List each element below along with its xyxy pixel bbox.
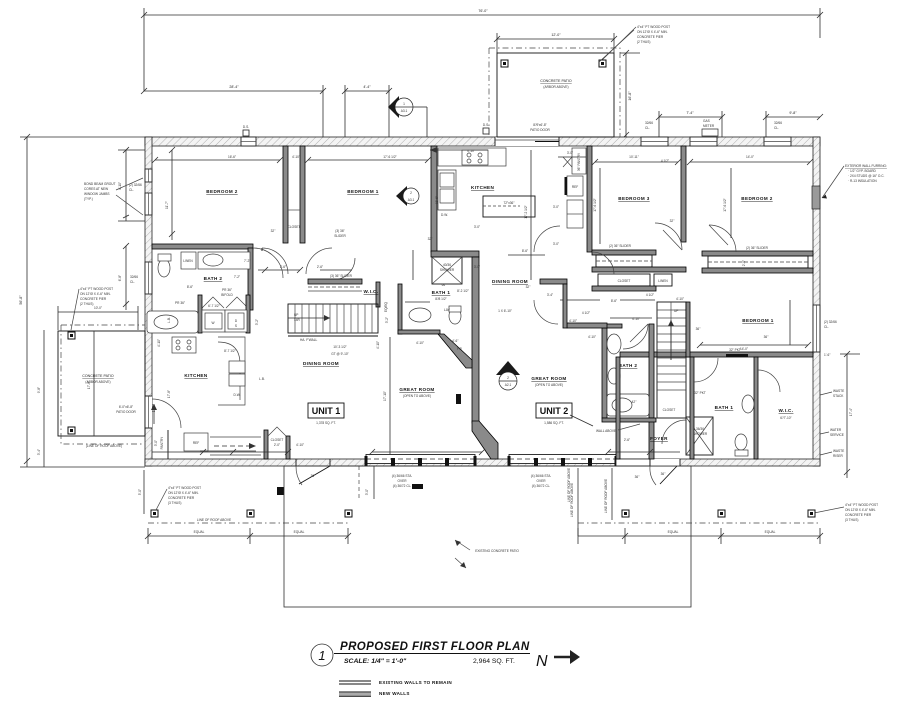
svg-text:(OPEN TO ABOVE): (OPEN TO ABOVE)	[403, 394, 431, 398]
tub unit1	[147, 311, 198, 333]
svg-text:D.W.: D.W.	[234, 393, 241, 397]
svg-text:2'-0": 2'-0"	[742, 260, 746, 266]
svg-text:4"x4" PT WOOD POST: 4"x4" PT WOOD POST	[80, 287, 113, 291]
plain new wall section 616-650	[616, 459, 650, 466]
hall dims u2	[508, 254, 545, 256]
svg-text:32" PKT: 32" PKT	[694, 391, 706, 395]
svg-text:WINDOW JAMBS: WINDOW JAMBS	[84, 192, 110, 196]
closet shelf lines	[288, 209, 300, 211]
svg-text:17'-8": 17'-8"	[167, 390, 171, 398]
left secondary dim line	[125, 150, 127, 221]
bedroom1 bottom wall	[620, 352, 813, 357]
svg-text:17'-2 1/2": 17'-2 1/2"	[524, 205, 528, 218]
svg-text:2,964 SQ. FT.: 2,964 SQ. FT.	[473, 658, 515, 665]
svg-text:56'-8": 56'-8"	[19, 295, 23, 305]
svg-text:3'-0": 3'-0"	[553, 242, 559, 246]
svg-text:(4) 36/72 CL.: (4) 36/72 CL.	[532, 484, 551, 488]
svg-text:· 1/2" GYP. BOARD: · 1/2" GYP. BOARD	[848, 169, 877, 173]
kitchen unit2 top counters	[438, 148, 506, 166]
bedroom2(u2) width dim	[690, 161, 810, 163]
wic door arc	[758, 370, 780, 392]
bedroom2 / closet wall	[283, 146, 288, 243]
svg-text:LINE OF ROOF ABOVE: LINE OF ROOF ABOVE	[197, 518, 231, 522]
svg-text:(3 THUS): (3 THUS)	[168, 501, 181, 505]
svg-text:4 1/2": 4 1/2"	[582, 311, 590, 315]
svg-text:4"x4" PT WOOD POST: 4"x4" PT WOOD POST	[845, 503, 878, 507]
svg-text:SHOWER: SHOWER	[440, 268, 455, 272]
drawing number circle	[311, 644, 333, 666]
bedroom1 u2 dim	[700, 344, 808, 346]
top overall dimension line 76'-0"	[144, 14, 820, 16]
svg-text:4'-10": 4'-10"	[416, 341, 424, 345]
svg-text:CL.: CL.	[645, 126, 650, 130]
svg-text:GREAT ROOM: GREAT ROOM	[399, 387, 434, 392]
right porch vertical edge	[577, 468, 579, 536]
svg-text:16'-8": 16'-8"	[628, 91, 632, 101]
svg-text:4'-6": 4'-6"	[452, 339, 458, 343]
bedroom3 left wall	[587, 146, 592, 252]
unit sep jog	[431, 251, 479, 257]
svg-text:EXTERIOR WALL FURRING:: EXTERIOR WALL FURRING:	[845, 164, 887, 168]
bifold door chevrons	[202, 297, 248, 308]
svg-text:PR 36": PR 36"	[175, 301, 185, 305]
svg-text:EXISTING CONCRETE PATIO: EXISTING CONCRETE PATIO	[475, 549, 519, 553]
sill dim line above bottom wall left	[152, 451, 288, 453]
svg-text:6'-8": 6'-8"	[118, 275, 122, 281]
kitchen range	[172, 337, 196, 353]
svg-text:SLIDER: SLIDER	[334, 234, 346, 238]
svg-text:(2 THUS): (2 THUS)	[637, 40, 650, 44]
svg-text:3'-0": 3'-0"	[553, 205, 559, 209]
svg-text:BEDROOM 1: BEDROOM 1	[742, 318, 773, 323]
kitchen unit2 left counter: sink boxes	[438, 170, 456, 210]
svg-text:(LINE OF ROOF ABOVE): (LINE OF ROOF ABOVE)	[86, 444, 122, 448]
32" PKT label	[726, 354, 748, 357]
svg-text:8'-2 1/2": 8'-2 1/2"	[457, 289, 469, 293]
svg-text:9'-8": 9'-8"	[789, 111, 797, 115]
left exterior wall	[145, 137, 152, 466]
porch posts right	[622, 510, 629, 517]
svg-text:PR 36": PR 36"	[222, 288, 232, 292]
REF unit2	[567, 176, 583, 196]
svg-text:17'-8": 17'-8"	[87, 381, 91, 389]
laundry jamb walls	[198, 295, 202, 333]
svg-text:3'-4": 3'-4"	[547, 293, 553, 297]
svg-text:LINE OF ROOF ABOVE: LINE OF ROOF ABOVE	[604, 479, 608, 513]
svg-text:8'-7 1/2": 8'-7 1/2"	[224, 349, 236, 353]
top wall window left	[241, 137, 256, 146]
svg-text:REF: REF	[193, 441, 199, 445]
svg-text:A3.1: A3.1	[401, 109, 408, 113]
svg-text:6'-7 1/2": 6'-7 1/2"	[208, 304, 220, 308]
bedroom2 bottom wall	[152, 244, 253, 249]
svg-text:EXISTING WALLS TO REMAIN: EXISTING WALLS TO REMAIN	[379, 680, 452, 685]
svg-text:3'-4": 3'-4"	[37, 449, 41, 455]
svg-text:7'-2": 7'-2"	[244, 259, 250, 263]
svg-text:CONCRETE PATIO: CONCRETE PATIO	[82, 374, 114, 378]
svg-text:GAS: GAS	[703, 119, 710, 123]
svg-text:D.S.: D.S.	[483, 123, 489, 127]
svg-text:UNIT 1: UNIT 1	[312, 406, 341, 416]
svg-text:REF: REF	[572, 185, 578, 189]
svg-text:A2.1: A2.1	[505, 383, 512, 387]
svg-text:RISER: RISER	[833, 454, 843, 458]
patio posts	[501, 60, 508, 67]
svg-text:36": 36"	[661, 472, 666, 476]
top exterior wall (hatched existing)	[145, 137, 820, 146]
sill dim line above bottom wall mid	[372, 451, 482, 453]
patio top dim	[58, 311, 138, 313]
hall wall u2 bath2 top extend	[567, 323, 607, 328]
svg-text:3'-2": 3'-2"	[385, 317, 389, 323]
right wall furring gray block	[812, 186, 820, 209]
bath2 unit2	[602, 324, 607, 418]
svg-text:CONCRETE PIER: CONCRETE PIER	[80, 297, 107, 301]
REF box unit1	[184, 433, 208, 451]
hall door arcs	[333, 258, 355, 280]
svg-text:(2) 36" SLIDER: (2) 36" SLIDER	[609, 244, 632, 248]
bottom wall slider window group 2	[508, 455, 618, 467]
svg-text:METER: METER	[703, 124, 715, 128]
svg-text:4"x4" PT WOOD POST: 4"x4" PT WOOD POST	[637, 25, 670, 29]
svg-text:11'-7": 11'-7"	[165, 201, 169, 209]
bedroom2 unit2 closet bands	[702, 251, 813, 256]
svg-text:7'-4": 7'-4"	[686, 111, 694, 115]
svg-text:8'/8 1/2": 8'/8 1/2"	[435, 297, 447, 301]
svg-text:72"x36": 72"x36"	[504, 201, 515, 205]
svg-text:4'-4": 4'-4"	[363, 85, 371, 89]
bath2 toilet	[158, 259, 170, 277]
svg-text:14'-0": 14'-0"	[746, 155, 754, 159]
door arc bedroom2	[262, 248, 288, 274]
second row dim 28'-4"	[144, 90, 323, 92]
bedroom1 width dim	[308, 159, 428, 161]
porch dim line right	[578, 535, 820, 537]
svg-text:LINE OF ROOF ABOVE: LINE OF ROOF ABOVE	[570, 483, 574, 517]
svg-text:BEDROOM 3: BEDROOM 3	[618, 196, 649, 201]
svg-text:W.I.C.: W.I.C.	[364, 289, 379, 294]
doors arcs unit2 bedrooms	[655, 223, 682, 250]
patio door swing arrow unit2 kitchen	[430, 149, 488, 151]
section marker 1/A3.1	[388, 96, 427, 137]
bedroom3 height dim	[599, 168, 601, 244]
svg-text:17'-8": 17'-8"	[152, 404, 156, 412]
svg-text:ON 12"Ø X 4'-6" MIN.: ON 12"Ø X 4'-6" MIN.	[845, 508, 876, 512]
36/36 shower bottom right	[686, 417, 713, 455]
svg-text:(ARBOR ABOVE): (ARBOR ABOVE)	[543, 85, 568, 89]
left overall vertical dim 56'-8"	[26, 137, 28, 467]
svg-text:L.B.: L.B.	[259, 377, 265, 381]
svg-text:3'-0": 3'-0"	[154, 440, 158, 446]
svg-text:OVER: OVER	[536, 479, 546, 483]
center hall arcs u2	[534, 226, 560, 252]
svg-text:40/36: 40/36	[443, 263, 451, 267]
bath2 u2 dims	[610, 317, 652, 319]
svg-text:1: 1	[318, 648, 325, 663]
svg-text:WATER: WATER	[830, 428, 842, 432]
svg-text:D.W.: D.W.	[441, 213, 448, 217]
svg-text:KITCHEN: KITCHEN	[184, 373, 207, 378]
svg-text:CORES AT NEW: CORES AT NEW	[84, 187, 108, 191]
right exterior wall	[813, 137, 820, 466]
svg-text:WALL ABOVE: WALL ABOVE	[596, 429, 616, 433]
bath1 u1 dims	[405, 301, 430, 303]
peninsula counter	[218, 337, 245, 405]
svg-text:BIFOLD: BIFOLD	[221, 293, 233, 297]
svg-text:4'-10": 4'-10"	[296, 443, 304, 447]
unit2 label box	[536, 403, 572, 418]
svg-text:SERVICE: SERVICE	[830, 433, 844, 437]
wic dim	[320, 269, 352, 271]
central existing concrete patio	[284, 466, 691, 607]
svg-text:36": 36"	[311, 474, 316, 478]
bedroom2 width dim	[155, 159, 280, 161]
svg-text:L.B.: L.B.	[167, 317, 171, 323]
bedroom1 right wall (unit sep upper)	[431, 146, 437, 252]
svg-text:10'-3 1/2": 10'-3 1/2"	[333, 345, 346, 349]
svg-text:4'-10": 4'-10"	[292, 155, 300, 159]
svg-text:7'-2": 7'-2"	[234, 275, 240, 279]
line of roof above (right of unit2) vertical	[611, 468, 613, 520]
svg-text:FOYER: FOYER	[650, 436, 668, 441]
svg-text:CLOSET: CLOSET	[271, 438, 284, 442]
svg-text:· 2X4 STUDS @ 16" O.C.: · 2X4 STUDS @ 16" O.C.	[848, 174, 885, 178]
dim 4'-4"	[345, 90, 389, 92]
svg-text:76'-0": 76'-0"	[478, 9, 488, 13]
diagonal wall below bath1	[438, 334, 472, 368]
svg-text:EQ/EQ: EQ/EQ	[384, 301, 388, 312]
stairs unit2	[657, 302, 686, 418]
svg-text:2: 2	[507, 376, 509, 380]
svg-text:2'-0": 2'-0"	[274, 443, 280, 447]
svg-text:2'-6": 2'-6"	[624, 438, 630, 442]
svg-text:BOND BEAM GROUT: BOND BEAM GROUT	[84, 182, 116, 186]
svg-text:32" PKT: 32" PKT	[729, 348, 741, 352]
svg-text:36": 36"	[696, 327, 701, 331]
svg-text:1'-6": 1'-6"	[824, 353, 830, 357]
svg-text:8'-6": 8'-6"	[611, 299, 617, 303]
svg-text:CLOSET: CLOSET	[663, 408, 676, 412]
svg-text:17'-6 1/2": 17'-6 1/2"	[723, 198, 727, 211]
svg-text:BATH 1: BATH 1	[715, 405, 734, 410]
svg-text:CLOSET: CLOSET	[618, 279, 631, 283]
svg-text:11'-6": 11'-6"	[435, 196, 439, 204]
svg-text:32": 32"	[428, 237, 433, 241]
left wall patio door opening	[145, 396, 152, 428]
svg-text:LINEN: LINEN	[658, 279, 668, 283]
counters right of kitchen	[567, 200, 583, 228]
top right dim 9'-8"	[766, 116, 820, 118]
svg-text:32": 32"	[526, 285, 531, 289]
svg-text:(OPEN TO ABOVE): (OPEN TO ABOVE)	[535, 383, 563, 387]
svg-text:UP: UP	[294, 313, 298, 317]
svg-text:4'-10": 4'-10"	[588, 335, 596, 339]
bedroom3 width dim	[595, 161, 678, 163]
svg-text:DINING ROOM: DINING ROOM	[492, 279, 528, 284]
svg-text:EQUAL: EQUAL	[765, 530, 776, 534]
section marker 2/A3.1 upper	[396, 186, 419, 206]
svg-text:PATIO DOOR: PATIO DOOR	[116, 410, 136, 414]
legend: existing walls	[339, 680, 452, 685]
bath1 unit1 walls	[398, 284, 402, 334]
svg-text:17'-6 1/2": 17'-6 1/2"	[593, 198, 597, 211]
svg-text:EQUAL: EQUAL	[194, 530, 205, 534]
pantry box next to bedroom3 wall	[572, 148, 586, 174]
svg-text:BEDROOM 2: BEDROOM 2	[206, 189, 237, 194]
dining u2 height dim	[530, 150, 532, 280]
svg-text:2: 2	[410, 191, 412, 195]
svg-text:(2) 36" SLIDER: (2) 36" SLIDER	[746, 246, 769, 250]
svg-text:8'-6": 8'-6"	[187, 285, 193, 289]
svg-text:CLOSET: CLOSET	[288, 225, 301, 229]
svg-text:LAV: LAV	[444, 308, 451, 312]
svg-text:3'-2": 3'-2"	[255, 319, 259, 325]
svg-text:W: W	[211, 321, 214, 325]
svg-text:BEDROOM 2: BEDROOM 2	[741, 196, 772, 201]
wall above arrow u2	[570, 415, 593, 426]
svg-text:CL.: CL.	[774, 126, 779, 130]
svg-text:8'-6": 8'-6"	[522, 249, 528, 253]
svg-text:32": 32"	[670, 219, 675, 223]
svg-text:CONCRETE PIER: CONCRETE PIER	[845, 513, 872, 517]
stairs unit1	[288, 304, 378, 333]
svg-text:D.S.: D.S.	[243, 125, 249, 129]
svg-text:BATH 2: BATH 2	[619, 363, 638, 368]
svg-text:LINEN: LINEN	[183, 259, 193, 263]
svg-text:32/66: 32/66	[130, 275, 138, 279]
svg-text:WASTE: WASTE	[833, 389, 844, 393]
unit separation diagonal to bottom	[472, 421, 498, 459]
bedroom3 closet band	[592, 250, 656, 255]
DW boxes	[229, 361, 245, 373]
bottom-right interior walls	[690, 357, 694, 459]
closet dim row u1	[258, 269, 300, 271]
svg-text:A3.1: A3.1	[408, 198, 415, 202]
u1 dining/great divider line	[389, 337, 391, 454]
svg-text:UNIT 2: UNIT 2	[540, 406, 569, 416]
svg-text:PANTRY: PANTRY	[160, 436, 164, 450]
svg-text:BATH 2: BATH 2	[204, 276, 223, 281]
svg-text:36": 36"	[764, 335, 769, 339]
svg-text:ON 12"Ø X 4'-6" MIN.: ON 12"Ø X 4'-6" MIN.	[80, 292, 111, 296]
bedroom2 height dim	[171, 150, 173, 240]
svg-text:4 1/2": 4 1/2"	[646, 293, 654, 297]
W.I.C. walls	[308, 279, 362, 284]
top wall patio door opening	[495, 137, 559, 146]
svg-text:10'-0": 10'-0"	[94, 306, 102, 310]
svg-text:SHOWER: SHOWER	[693, 432, 708, 436]
svg-text:8'/9'x6'-8": 8'/9'x6'-8"	[533, 123, 547, 127]
svg-text:28'-4": 28'-4"	[229, 85, 239, 89]
porch posts left	[151, 510, 158, 517]
svg-text:14R: 14R	[294, 318, 301, 322]
svg-text:3'-0": 3'-0"	[567, 151, 573, 155]
svg-text:1: 1	[403, 102, 405, 106]
svg-text:3'-0": 3'-0"	[474, 265, 480, 269]
svg-text:SCALE: 1/4" = 1'-0": SCALE: 1/4" = 1'-0"	[344, 658, 407, 665]
svg-text:36" PANTRY: 36" PANTRY	[577, 152, 581, 171]
svg-text:WASTE: WASTE	[833, 449, 844, 453]
interior dim line texture	[152, 137, 813, 455]
svg-text:36/36: 36/36	[696, 427, 704, 431]
svg-text:OVER: OVER	[397, 479, 407, 483]
closet lower band	[592, 267, 686, 272]
section marker 2/A2.1	[496, 361, 520, 390]
svg-text:32": 32"	[271, 229, 276, 233]
svg-text:(4) 36/66 STA.: (4) 36/66 STA.	[392, 474, 413, 478]
patio door swing arrow	[153, 404, 155, 424]
svg-text:1 X 6'-10": 1 X 6'-10"	[498, 309, 512, 313]
bedroom2(u2) height dim	[730, 168, 732, 238]
svg-text:(TYP.): (TYP.)	[84, 197, 93, 201]
svg-text:6'/7'-10": 6'/7'-10"	[780, 416, 791, 420]
svg-text:14'-0": 14'-0"	[740, 347, 748, 351]
svg-text:P.P.: P.P.	[457, 347, 462, 351]
svg-text:17'-10": 17'-10"	[383, 391, 387, 401]
svg-text:ON 12"Ø X 4'-6" MIN.: ON 12"Ø X 4'-6" MIN.	[637, 30, 668, 34]
svg-text:(4) 36/66 STA.: (4) 36/66 STA.	[531, 474, 552, 478]
svg-text:4'-10": 4'-10"	[676, 297, 684, 301]
legend: new walls	[339, 691, 410, 696]
island	[483, 196, 535, 217]
patio right vertical dim 16'-8"	[625, 53, 627, 141]
svg-text:HA. F'WALL: HA. F'WALL	[300, 338, 318, 342]
bottom wall entry door gaps	[295, 459, 297, 466]
bedroom2 u1 door arc	[253, 248, 283, 278]
svg-text:KITCHEN: KITCHEN	[471, 185, 494, 190]
svg-text:UP: UP	[674, 309, 678, 313]
top wall windows	[641, 137, 791, 146]
svg-text:· R-13 INSULATION: · R-13 INSULATION	[848, 179, 877, 183]
svg-text:4'-10": 4'-10"	[569, 319, 577, 323]
svg-text:(2 THUS): (2 THUS)	[80, 302, 93, 306]
left wall windows	[145, 169, 152, 182]
svg-text:42": 42"	[632, 400, 637, 404]
linen box	[181, 252, 196, 269]
closet bottom center unit1	[264, 430, 268, 459]
unit separation wall vertical	[472, 257, 479, 423]
svg-text:(2) 32/66: (2) 32/66	[824, 320, 837, 324]
svg-text:(2) 32/66: (2) 32/66	[129, 183, 142, 187]
svg-text:CL.: CL.	[130, 280, 135, 284]
svg-text:GREAT ROOM: GREAT ROOM	[531, 376, 566, 381]
svg-text:(3 THUS): (3 THUS)	[845, 518, 858, 522]
half wall below stairs	[288, 335, 378, 337]
svg-text:(3) 36" SLIDER: (3) 36" SLIDER	[330, 274, 353, 278]
bedroom3/2 divider wall	[681, 146, 686, 242]
bath2 right wall	[248, 248, 253, 310]
svg-text:1,586 SQ. FT.: 1,586 SQ. FT.	[544, 421, 564, 425]
bottom wall slider window group 1	[365, 455, 477, 467]
svg-text:17'-4": 17'-4"	[849, 408, 853, 416]
svg-text:3'-0": 3'-0"	[474, 225, 480, 229]
bath1 unit1 shower	[432, 257, 462, 284]
top right dim 7'-4"	[659, 116, 722, 118]
small dark jamb	[456, 394, 461, 404]
svg-text:(4) 36/72 CL.: (4) 36/72 CL.	[393, 484, 412, 488]
svg-text:4'-10": 4'-10"	[376, 341, 380, 349]
laundry boxes W / D	[202, 310, 225, 332]
right wall window	[813, 305, 820, 352]
svg-text:4'-10": 4'-10"	[157, 339, 161, 347]
svg-text:32/66: 32/66	[645, 121, 653, 125]
svg-text:BATH 1: BATH 1	[432, 290, 451, 295]
svg-text:CL.: CL.	[129, 188, 134, 192]
svg-text:S: S	[235, 324, 237, 328]
svg-text:1,378 SQ. FT.: 1,378 SQ. FT.	[316, 421, 336, 425]
svg-text:BEDROOM 1: BEDROOM 1	[347, 189, 378, 194]
svg-text:EQUAL: EQUAL	[294, 530, 305, 534]
